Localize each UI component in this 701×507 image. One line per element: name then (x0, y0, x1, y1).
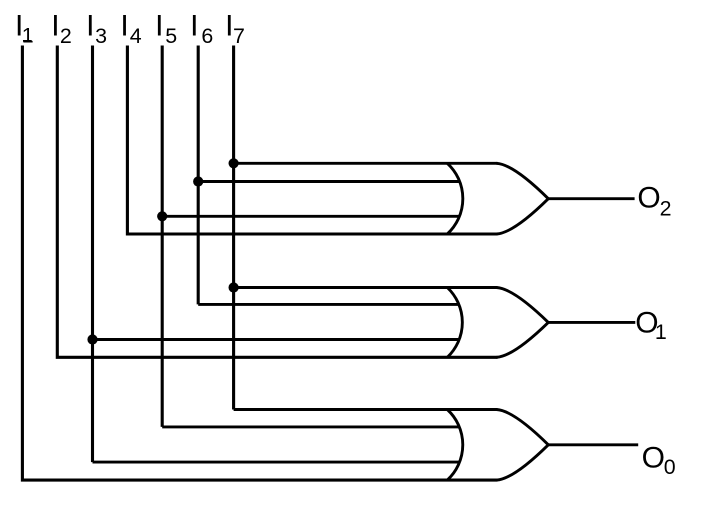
svg-text:I: I (190, 9, 198, 42)
wire output O0 (548, 443, 638, 446)
or-gate U3 (output O0) front curves (497, 410, 549, 481)
wire I4 vertical + O2 input 4 horizontal (127, 46, 497, 235)
svg-text:2: 2 (60, 24, 72, 48)
or-gate U1 back arc (447, 163, 463, 234)
wire I3 vertical (91, 46, 94, 463)
svg-text:4: 4 (130, 24, 142, 48)
svg-text:3: 3 (95, 24, 107, 48)
or-gate U2 (output O1) front curves (497, 288, 549, 358)
wire O1 input 1 horizontal (from I7) (234, 286, 498, 289)
input label I7 (225, 9, 245, 48)
junction dot I7/O1 (229, 282, 239, 292)
svg-text:6: 6 (201, 24, 213, 48)
junction dot I7/O2 (229, 158, 239, 168)
input label I5 (155, 9, 177, 48)
output label O2 (637, 181, 671, 220)
wire O2 input 2 horizontal (from I6) (198, 180, 459, 183)
wire I1 vertical + O0 input 4 horizontal (22, 46, 497, 481)
wire output O2 (548, 197, 634, 200)
svg-text:I: I (120, 9, 128, 42)
input label I3 (86, 9, 107, 48)
svg-text:2: 2 (660, 196, 672, 220)
wire I7 vertical (232, 46, 235, 410)
wire O1 input 3 horizontal (from I3) (93, 338, 460, 341)
wire O2 input 3 horizontal (from I5) (162, 215, 459, 218)
wire O0 input 3 horizontal (from I3) (93, 461, 460, 464)
junction dot I6/O2 (193, 176, 203, 186)
junction dot I3/O1 (87, 334, 97, 344)
svg-text:0: 0 (664, 455, 676, 479)
input label I4 (120, 9, 141, 48)
svg-text:I: I (51, 9, 59, 42)
wire O0 input 1 horizontal (from I7) (234, 408, 498, 411)
wire I6 vertical (197, 46, 200, 305)
svg-text:O: O (642, 442, 665, 475)
input label I1 (15, 9, 34, 47)
input label I6 (190, 9, 213, 48)
or-gate U2 back arc (447, 288, 462, 358)
junction dot I5/O2 (157, 211, 167, 221)
wire O2 input 1 horizontal (from I7) (234, 162, 498, 165)
or-gate U3 back arc (447, 410, 462, 481)
output label O0 (642, 442, 676, 479)
svg-text:5: 5 (165, 24, 177, 48)
svg-text:O: O (637, 181, 660, 214)
svg-text:7: 7 (233, 24, 245, 48)
input label I2 (51, 9, 72, 48)
wire O0 input 2 horizontal (from I5) (162, 425, 459, 428)
svg-text:1: 1 (22, 23, 34, 47)
wire output O1 (548, 321, 635, 324)
svg-text:1: 1 (655, 320, 667, 344)
svg-text:I: I (155, 9, 163, 42)
wire I2 vertical + O1 input 4 horizontal (57, 46, 497, 358)
svg-text:I: I (86, 9, 94, 42)
or-gate U1 (output O2) front curves (497, 163, 549, 234)
wire I5 vertical (161, 46, 164, 427)
output label O1 (635, 307, 666, 344)
wire O1 input 2 horizontal (from I6) (198, 303, 459, 306)
